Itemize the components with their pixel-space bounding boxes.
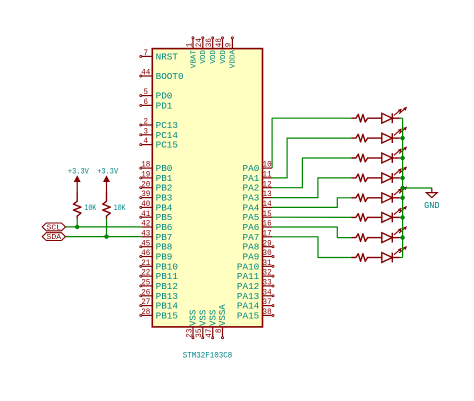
pin 36 (VDD) top [206, 37, 218, 64]
resistor R9 [352, 234, 368, 242]
svg-text:31: 31 [263, 259, 272, 268]
power symbol +3.3V #2 [97, 168, 118, 192]
junction SDA/R2 [104, 234, 108, 238]
svg-text:2: 2 [144, 118, 149, 127]
svg-text:25: 25 [141, 279, 150, 288]
LED D1 [368, 107, 407, 123]
pin 28 (PB15) left [140, 308, 178, 321]
global label SDA [42, 233, 65, 243]
svg-text:11: 11 [263, 171, 272, 180]
pin 21 (PB10) left [140, 259, 178, 272]
pin 4 (PC15) left [140, 137, 178, 150]
svg-text:VDD: VDD [210, 49, 218, 63]
svg-text:3: 3 [144, 127, 149, 136]
pin 33 (PA12) right [237, 279, 274, 292]
wire LED D6 cathode to bus [400, 216, 403, 218]
pin 13 (PA3) right [243, 190, 273, 203]
svg-text:24: 24 [196, 38, 204, 47]
pin 27 (PB14) left [140, 298, 179, 311]
svg-text:14: 14 [263, 200, 272, 209]
LED D6 [368, 206, 407, 222]
IC U1 STM32F103C8 body [152, 49, 262, 327]
pin 42 (PB6) left [141, 220, 172, 233]
svg-text:PB15: PB15 [156, 310, 178, 321]
pin 3 (PC14) left [140, 127, 179, 140]
LED D7 [368, 227, 407, 243]
pin 19 (PB1) left [140, 171, 173, 184]
svg-text:44: 44 [141, 69, 150, 78]
svg-text:VDD: VDD [220, 49, 228, 63]
svg-text:19: 19 [141, 171, 150, 180]
svg-text:BOOT0: BOOT0 [156, 71, 184, 82]
pin 47 (VSS) bottom [206, 309, 218, 338]
svg-text:29: 29 [263, 239, 272, 248]
svg-text:NRST: NRST [156, 51, 179, 62]
pin 10 (PA0) right [243, 161, 273, 174]
svg-text:22: 22 [141, 269, 150, 278]
resistor R4 [352, 134, 368, 142]
wire PA6 to R9 [272, 227, 352, 238]
wire cathode bus [402, 118, 404, 257]
pin 45 (PB8) left [140, 239, 173, 252]
svg-text:VSSA: VSSA [217, 304, 228, 326]
svg-text:45: 45 [141, 239, 150, 248]
svg-text:1: 1 [186, 42, 194, 47]
wire bus to GND [403, 187, 432, 189]
wire SDA to PB7 [66, 236, 142, 238]
pin 6 (PD1) left [140, 98, 173, 111]
junction SCL/R1 [75, 225, 79, 229]
pin 18 (PB0) left [140, 161, 173, 174]
resistor R3 [352, 114, 368, 122]
svg-text:STM32F103C8: STM32F103C8 [183, 352, 233, 361]
pin 30 (PA9) right [243, 249, 275, 262]
svg-text:27: 27 [141, 298, 150, 307]
resistor R7 [352, 194, 368, 202]
wire PA7 to R10 [272, 237, 352, 258]
resistor R10 [352, 254, 368, 262]
pin 34 (PA13) right [237, 288, 274, 301]
svg-text:38: 38 [263, 308, 272, 317]
LED D5 [368, 187, 407, 203]
pin 2 (PC13) left [140, 118, 178, 131]
svg-text:PD1: PD1 [156, 100, 173, 111]
svg-text:GND: GND [424, 201, 439, 211]
svg-text:15: 15 [263, 210, 272, 219]
wire LED D2 cathode to bus [400, 137, 403, 139]
pin 32 (PA11) right [237, 269, 274, 282]
pin 8 (VSSA) bottom [216, 304, 228, 339]
pin 11 (PA1) right [243, 171, 273, 184]
svg-text:35: 35 [196, 328, 204, 337]
pin 38 (PA15) right [237, 308, 274, 321]
svg-text:46: 46 [141, 249, 150, 258]
pin 17 (PA7) right [243, 229, 273, 242]
resistor R8 [352, 214, 368, 222]
svg-text:VDDA: VDDA [230, 49, 238, 68]
svg-text:VBAT: VBAT [190, 49, 198, 68]
junction bus row 6 [400, 215, 404, 219]
pin 26 (PB13) left [140, 288, 178, 301]
svg-text:30: 30 [263, 249, 272, 258]
svg-text:23: 23 [186, 328, 194, 337]
svg-text:20: 20 [141, 180, 150, 189]
svg-text:4: 4 [144, 137, 149, 146]
pin 25 (PB12) left [140, 279, 178, 292]
svg-text:10: 10 [263, 161, 272, 170]
pin 35 (VSS) bottom [196, 309, 208, 338]
svg-text:36: 36 [206, 38, 214, 47]
svg-text:16: 16 [263, 220, 272, 229]
pin 5 (PD0) left [140, 88, 173, 101]
pin 16 (PA6) right [243, 220, 273, 233]
svg-text:VDD: VDD [200, 49, 208, 63]
pin 1 (VBAT) top [186, 37, 198, 68]
svg-text:SDA: SDA [47, 234, 62, 242]
junction bus GND tap [400, 186, 404, 190]
pin 41 (PB5) left [140, 210, 173, 223]
svg-text:+3.3V: +3.3V [68, 168, 89, 176]
svg-text:10K: 10K [85, 205, 97, 213]
pin 43 (PB7) left [141, 229, 172, 242]
svg-text:17: 17 [263, 229, 272, 238]
pin 46 (PB9) left [140, 249, 173, 262]
pin 24 (VDD) top [196, 37, 208, 64]
svg-text:43: 43 [141, 229, 150, 238]
svg-text:37: 37 [263, 298, 272, 307]
wire LED D8 cathode to bus [400, 257, 403, 259]
pin 22 (PB11) left [140, 269, 179, 282]
svg-text:48: 48 [216, 38, 224, 47]
svg-text:6: 6 [144, 98, 149, 107]
svg-text:5: 5 [144, 88, 149, 97]
wire R1 bottom to SCL net [76, 219, 78, 227]
svg-text:28: 28 [141, 308, 150, 317]
resistor R5 [352, 154, 368, 162]
wire PA3 to R6 [272, 178, 352, 198]
global label SCL [42, 223, 65, 233]
wire LED D7 cathode to bus [400, 237, 403, 239]
svg-text:34: 34 [263, 288, 272, 297]
power symbol +3.3V #1 [68, 168, 89, 192]
svg-text:39: 39 [141, 190, 150, 199]
svg-text:33: 33 [263, 279, 272, 288]
svg-text:10K: 10K [114, 205, 126, 213]
svg-text:13: 13 [263, 190, 272, 199]
pin 40 (PB4) left [140, 200, 173, 213]
junction bus row 2 [400, 136, 404, 140]
svg-text:26: 26 [141, 288, 150, 297]
LED D3 [368, 147, 407, 163]
wire LED D5 cathode to bus [400, 197, 403, 199]
junction bus row 5 [400, 196, 404, 200]
svg-text:12: 12 [263, 180, 272, 189]
wire LED D3 cathode to bus [400, 157, 403, 159]
svg-text:SCL: SCL [47, 225, 62, 233]
svg-text:7: 7 [144, 49, 149, 58]
svg-text:PC15: PC15 [156, 140, 178, 151]
pin 14 (PA4) right [243, 200, 273, 213]
svg-text:21: 21 [141, 259, 150, 268]
pin 15 (PA5) right [243, 210, 273, 223]
pin 7 (NRST) left [140, 49, 179, 62]
pin 31 (PA10) right [237, 259, 274, 272]
wire PA2 to R5 [272, 158, 352, 188]
wire PA4 to R7 [272, 198, 352, 208]
LED D4 [368, 167, 407, 183]
resistor R1 10K (pull-up) [73, 192, 96, 219]
svg-text:9: 9 [226, 42, 234, 47]
wire PA5 to R8 [272, 216, 352, 218]
svg-text:32: 32 [263, 269, 272, 278]
pin 39 (PB3) left [140, 190, 173, 203]
wire LED D4 cathode to bus [400, 177, 403, 179]
LED D8 [368, 246, 407, 262]
svg-text:PA15: PA15 [237, 310, 259, 321]
svg-text:40: 40 [141, 200, 150, 209]
svg-text:41: 41 [141, 210, 150, 219]
pin 23 (VSS) bottom [186, 309, 198, 338]
wire SCL to PB6 [66, 226, 142, 228]
LED D2 [368, 127, 407, 143]
wire PA1 to R4 [272, 138, 352, 178]
junction bus row 3 [400, 156, 404, 160]
resistor R2 10K (pull-up) [103, 192, 126, 219]
svg-text:8: 8 [216, 328, 224, 333]
pin 29 (PA8) right [243, 239, 275, 252]
junction bus row 4 [400, 176, 404, 180]
pin 12 (PA2) right [243, 180, 273, 193]
pin 37 (PA14) right [237, 298, 274, 311]
pin 9 (VDDA) top [226, 37, 238, 68]
svg-text:18: 18 [141, 161, 150, 170]
wire PA0 to R3 [272, 118, 352, 168]
ground symbol GND [424, 188, 439, 211]
resistor R6 [352, 174, 368, 182]
pin 44 (BOOT0) left [140, 69, 184, 82]
svg-text:47: 47 [206, 328, 214, 337]
wire R2 bottom to SDA net [106, 219, 108, 237]
pin 20 (PB2) left [140, 180, 173, 193]
pin 48 (VDD) top [216, 37, 228, 64]
wire LED D1 cathode to bus [400, 117, 403, 119]
junction bus row 7 [400, 235, 404, 239]
svg-text:42: 42 [141, 220, 150, 229]
svg-text:+3.3V: +3.3V [97, 168, 118, 176]
